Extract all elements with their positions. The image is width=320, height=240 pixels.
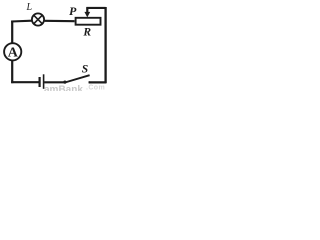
- wire top-left horizontal: [11, 20, 32, 23]
- rheostat slider arrow shaft: [86, 7, 88, 12]
- svg-text:R: R: [82, 27, 91, 39]
- switch S lever (open): [65, 75, 89, 82]
- wire bottom-right horizontal: [89, 81, 107, 83]
- battery cell negative plate (short thick): [38, 77, 40, 87]
- wire right vertical: [104, 7, 106, 83]
- svg-text:.Com: .Com: [86, 85, 105, 91]
- wire lamp to rheostat: [45, 20, 75, 23]
- switch S left contact dot: [63, 81, 66, 84]
- wire left vertical upper: [11, 21, 13, 44]
- rheostat R body (resistance box): [76, 18, 101, 25]
- rheostat slider arrowhead: [84, 12, 90, 18]
- ammeter A circle: [4, 43, 21, 60]
- wire bottom-left horizontal: [11, 81, 39, 83]
- battery cell positive plate (long): [43, 74, 45, 89]
- svg-text:S: S: [82, 64, 88, 76]
- svg-text:amBank: amBank: [44, 85, 83, 91]
- wire left vertical lower: [11, 61, 13, 84]
- switch S right contact: [89, 81, 91, 83]
- svg-text:A: A: [8, 46, 19, 61]
- wire top-right horizontal: [86, 7, 105, 9]
- svg-text:P: P: [69, 4, 77, 18]
- lamp X cross: [34, 15, 42, 23]
- lamp L circle: [32, 13, 44, 25]
- svg-text:L: L: [26, 2, 33, 13]
- wire battery to switch: [44, 81, 64, 83]
